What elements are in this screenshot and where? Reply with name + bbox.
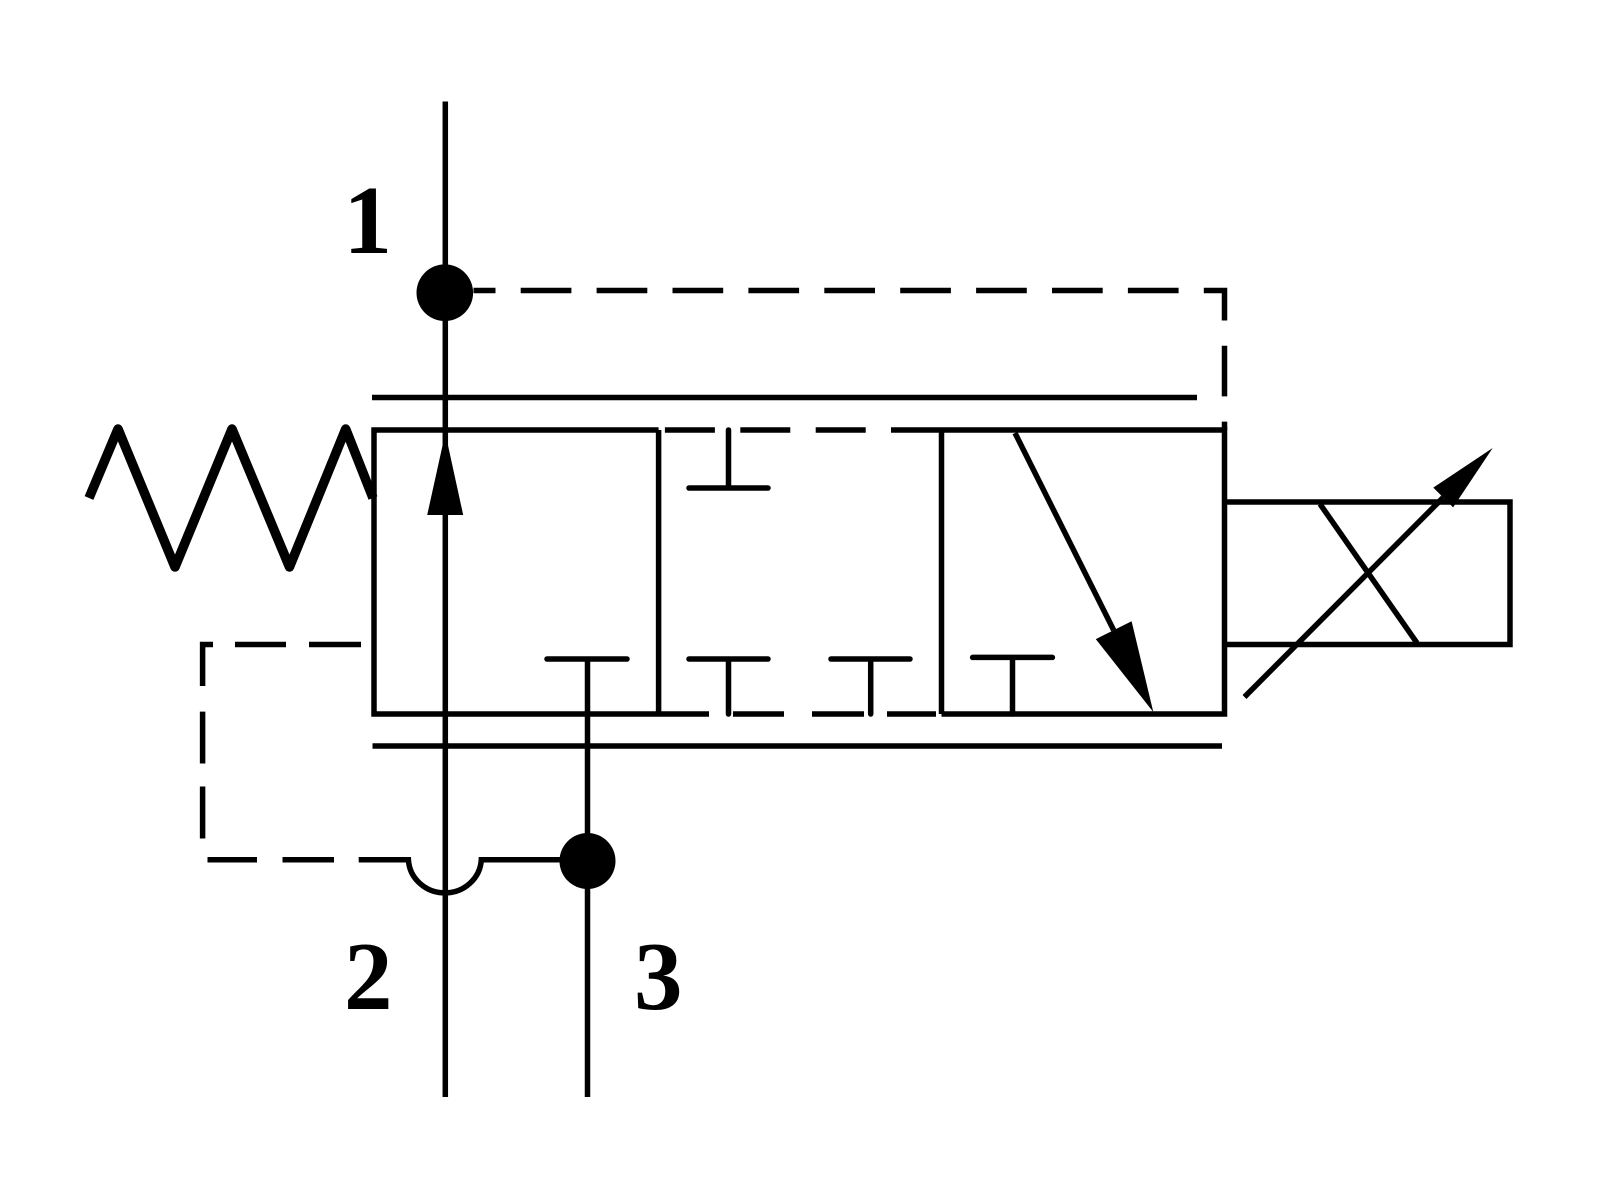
- blocked port 1 tee in transition top: [689, 430, 768, 488]
- valve body divider 2: [939, 430, 945, 714]
- wire dashed pilot horizontal segment y 860: [208, 857, 335, 863]
- valve body left envelope (position 1 box): [374, 430, 709, 714]
- valve body right envelope (position 2 box): [891, 430, 1225, 714]
- lower parallel line (infinite positioning): [373, 743, 1223, 749]
- blocked port 3 tee in position 1: [547, 656, 627, 662]
- solenoid proportional arrowhead: [1433, 448, 1492, 507]
- wire dashed pilot vertical segment x 202: [200, 712, 206, 839]
- blocked port 2 tee in position 2: [973, 657, 1053, 714]
- wire arrow stem through valve body: [443, 430, 449, 714]
- wire port 1 vertical line: [443, 102, 449, 431]
- wire dashed pilot corner dash at top left: [203, 645, 213, 687]
- valve body transition position dashed top edge: [659, 427, 891, 433]
- solenoid diagonal line: [1320, 504, 1417, 643]
- valve body transition position dashed bottom edge: [733, 711, 936, 717]
- flow path arrow up (position 1): [427, 433, 463, 515]
- wire port 3 vertical line: [585, 659, 591, 1097]
- blocked port 3 tee in transition bottom: [831, 659, 910, 714]
- svg-text:3: 3: [634, 923, 683, 1030]
- node junction at port 3: [560, 833, 616, 889]
- valve body divider 1: [656, 430, 662, 714]
- proportional solenoid box: [1225, 502, 1511, 645]
- wire port 2 vertical line: [443, 714, 449, 1097]
- wire dashed pilot line from node 1 to right end cap: [474, 291, 1225, 431]
- solenoid proportional arrow shaft: [1245, 498, 1444, 698]
- spring: [89, 429, 373, 567]
- node junction at port 1: [417, 264, 474, 321]
- upper parallel line (infinite positioning): [372, 395, 1197, 401]
- svg-text:2: 2: [344, 923, 393, 1030]
- flow path arrow diagonal (position 2): [1015, 433, 1114, 630]
- blocked port 2 tee in transition bottom: [689, 659, 768, 714]
- wire pilot line crossover hop to node 2: [359, 860, 560, 893]
- svg-text:1: 1: [343, 167, 392, 274]
- wire dashed pilot horizontal segment y 644: [235, 642, 361, 648]
